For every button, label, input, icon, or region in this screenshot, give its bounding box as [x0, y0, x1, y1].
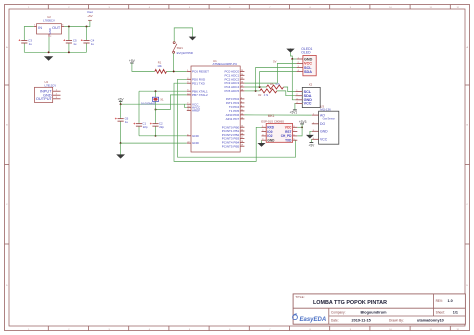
wire C5 to gnd rail	[68, 44, 70, 52]
svg-text:+5V: +5V	[309, 143, 316, 147]
U1 pin 12 AIN0 PD6	[226, 113, 245, 117]
wire SCL to OLED SCL	[256, 68, 297, 91]
U1 pin 7 VCC	[187, 102, 199, 106]
wire U2 GND pin down	[48, 37, 50, 52]
svg-text:Blogoundirum: Blogoundirum	[361, 311, 388, 315]
svg-text:GND: GND	[192, 141, 200, 145]
wire RXD to ESP TXD	[178, 79, 296, 157]
switch SW1 EVQ22705R	[173, 42, 193, 55]
U1 pin 27 PC4 ADC4	[224, 85, 244, 89]
wire AIN0 PD6 to U3 AO	[244, 114, 311, 116]
svg-text:AIN1 PD7: AIN1 PD7	[226, 117, 240, 121]
MK1 pin 1 RXD	[262, 126, 275, 130]
junction	[155, 135, 157, 137]
capacitor C4	[81, 38, 95, 45]
wire SW1 to reset node	[173, 53, 175, 71]
wire R2 to X2 SDA	[277, 91, 296, 96]
U1 pin 25 PC2 ADC2	[224, 77, 244, 81]
wire SDA to OLED SDA	[260, 72, 297, 87]
sensor U3 MQ-136	[319, 105, 339, 145]
U1 pin 19 PCINT5 PB5	[222, 144, 245, 148]
svg-text:+5V1: +5V1	[290, 110, 298, 114]
module MK1 ESP-01S C80865	[261, 114, 292, 142]
svg-text:GND: GND	[267, 138, 275, 142]
power flag +5V (reset pullup)	[129, 59, 136, 63]
svg-text:EVQ22705R: EVQ22705R	[177, 51, 193, 55]
U1 pin 15 PCINT1 PB1	[222, 129, 245, 133]
ground (MK1)	[258, 143, 266, 147]
X2 pin 1 SCL	[295, 90, 311, 94]
MK1 pin 3 IO2	[262, 134, 273, 138]
connector X2	[302, 83, 320, 108]
svg-text:GND: GND	[320, 130, 328, 134]
svg-text:TXD: TXD	[285, 138, 292, 142]
svg-text:GND: GND	[304, 57, 313, 61]
svg-text:ESP-01S C80865: ESP-01S C80865	[261, 120, 284, 124]
wire ground rail to U1 GND 22	[121, 142, 187, 144]
X2 pin 3 GND	[295, 98, 312, 102]
MK1 pin 5 TXD	[285, 138, 297, 142]
svg-text:PB7 XTAL2: PB7 XTAL2	[192, 93, 208, 97]
wire U2 OUT to +5V	[64, 20, 90, 26]
svg-text:LOMBA TTG POPOK PINTAR: LOMBA TTG POPOK PINTAR	[313, 300, 387, 306]
wire to C6	[120, 104, 122, 117]
U1 pin 11 T1 PD5	[229, 109, 245, 113]
power flag Vout +5V	[87, 10, 93, 20]
svg-text:1u: 1u	[91, 42, 95, 46]
svg-text:L7812CV: L7812CV	[45, 83, 57, 87]
power flag +3V3	[299, 120, 307, 124]
svg-text:X2: X2	[309, 83, 313, 87]
OLED1 pin 1 GND	[297, 57, 313, 61]
U3 pin 3 GND	[312, 130, 328, 134]
U1 pin 8 GND	[187, 134, 200, 138]
svg-text:SW1: SW1	[177, 46, 184, 50]
U1 pin 1 PC6 RESET	[187, 70, 209, 74]
U1 pin 13 AIN1 PD7	[226, 117, 245, 121]
wire OLED GND to X2 GND	[292, 59, 295, 100]
svg-text:X1: X1	[160, 97, 164, 101]
U1 pin 24 PC1 ADC1	[224, 73, 244, 77]
junction	[291, 58, 293, 60]
wire PC5 SCL to R2	[244, 90, 259, 92]
svg-text:2019-11-15: 2019-11-15	[352, 319, 371, 323]
wire to C5	[68, 27, 70, 40]
wire C6 to ground rail	[120, 123, 122, 144]
svg-text:GND: GND	[48, 28, 52, 34]
U3 pin 2 DO	[312, 122, 326, 126]
U1 pin 20 AVCC	[187, 105, 201, 109]
OLED1 pin 4 SDA	[297, 70, 313, 74]
svg-text:PD1 TXD: PD1 TXD	[192, 81, 206, 85]
U1 pin 2 PD0 RXD	[187, 77, 206, 81]
X2 pin 2 SDA	[295, 94, 311, 98]
wire U3 VCC to +5V	[310, 139, 312, 142]
wire +3V3 stem	[301, 124, 303, 127]
U3 pin 4 VCC	[312, 138, 328, 142]
svg-text:AREF: AREF	[192, 109, 200, 113]
resistor R1 10k	[155, 61, 167, 74]
svg-text:1.0: 1.0	[448, 299, 453, 303]
svg-text:PCINT5 PB5: PCINT5 PB5	[222, 144, 240, 148]
junction	[259, 86, 261, 88]
junction	[120, 142, 122, 144]
U1 pin 9 PB6 XTAL1	[187, 89, 208, 93]
U1 pin 6 T0 PD4	[229, 105, 245, 109]
U1 pin 14 PCINT0 PB0	[222, 125, 245, 129]
capacitor C5	[63, 38, 77, 45]
svg-text:DO: DO	[320, 122, 325, 126]
wire R1 to PC6 RESET	[167, 70, 187, 72]
svg-text:Sheet:: Sheet:	[436, 311, 445, 315]
svg-text:1u: 1u	[29, 42, 33, 46]
junction reset node	[173, 70, 175, 72]
svg-text:SDA: SDA	[304, 70, 312, 74]
junction	[155, 109, 157, 111]
wire to ground symbol	[120, 143, 122, 154]
crystal X1 16.000MHZ	[141, 91, 164, 106]
wire TXD to ESP RXD	[174, 83, 262, 161]
svg-text:VCC: VCC	[320, 138, 328, 142]
wire MK1 VCC to +3V3	[297, 126, 302, 128]
ground	[116, 154, 125, 158]
junction	[255, 90, 257, 92]
svg-text:MK1: MK1	[268, 114, 275, 118]
power flag +5V1	[290, 110, 298, 114]
U1 pin 18 PCINT4 PB4	[222, 141, 245, 145]
EasyEDA logo	[293, 314, 327, 323]
U1 pin 17 PCINT3 PB3	[222, 137, 245, 141]
wire +5V to VCC	[121, 101, 187, 104]
svg-text:R1: R1	[158, 61, 162, 65]
wire U3 GND to ground	[310, 131, 312, 135]
wire PC3 to OLED VCC	[244, 63, 296, 83]
svg-text:16.000MHZ: 16.000MHZ	[141, 102, 156, 106]
power flag +5V (MCU VCC)	[118, 97, 125, 101]
wire C1 to ground rail	[138, 128, 140, 136]
svg-text:+5V: +5V	[87, 14, 92, 18]
ground	[44, 56, 53, 61]
ground (OLED)	[286, 48, 294, 52]
wire ground rail to U1 GND 8	[139, 135, 187, 137]
svg-text:Drawn By:: Drawn By:	[389, 319, 404, 323]
microcontroller U1 ATMEGA328P-PU	[191, 59, 240, 152]
wire X2 VCC to +5V1	[294, 103, 297, 110]
junction	[120, 103, 122, 105]
wire PC4 SDA to R3	[244, 86, 266, 88]
wire C2 to ground rail	[155, 128, 157, 136]
wire +3V3 to CH_PD	[297, 127, 302, 136]
U1 pin 23 PC0 ADC0	[224, 70, 244, 74]
svg-text:OUT: OUT	[52, 26, 61, 30]
svg-text:10k: 10k	[157, 64, 162, 68]
wire crystal to C2	[155, 101, 157, 122]
U1 pin 21 AREF	[187, 109, 200, 113]
wire ground to OLED GND	[291, 52, 297, 59]
U3 pin 1 AO	[312, 113, 325, 117]
X2 pin 4 VCC	[295, 102, 311, 106]
resistor R2 4.7k	[258, 89, 277, 97]
U1 pin 22 GND	[187, 141, 200, 145]
ground	[189, 36, 197, 40]
MK1 pin 2 IO0	[262, 130, 273, 134]
wire XTAL1	[139, 90, 187, 92]
MK1 pin 7 RST	[285, 130, 297, 134]
svg-text:PC5 ADC5: PC5 ADC5	[224, 89, 239, 93]
wire VCC to AVCC	[184, 104, 186, 107]
wire SW1 to ground	[174, 28, 192, 42]
svg-text:+5V: +5V	[118, 97, 125, 101]
MK1 pin 6 CH_PD	[281, 134, 298, 138]
svg-text:22p: 22p	[159, 125, 164, 129]
svg-text:+3V3: +3V3	[299, 120, 307, 124]
svg-text:REV:: REV:	[436, 299, 443, 303]
capacitor C6	[115, 117, 129, 124]
svg-text:OUTPUT: OUTPUT	[36, 96, 53, 101]
wire +5V to R1	[132, 63, 155, 71]
connector OLED1 OLED	[301, 47, 316, 76]
svg-text:IN: IN	[38, 26, 42, 30]
svg-text:GND: GND	[192, 134, 200, 138]
wire MK1 GND down	[261, 140, 263, 143]
U1 pin 26 PC3 ADC3	[224, 81, 244, 85]
junction	[86, 26, 88, 28]
U1 pin 4 INT0 PD2	[226, 97, 245, 101]
junction	[68, 51, 70, 53]
capacitor C2	[150, 122, 165, 129]
svg-text:VCC: VCC	[304, 102, 312, 106]
svg-text:Date:: Date:	[331, 319, 339, 323]
svg-text:ATMEGA328P-PU: ATMEGA328P-PU	[213, 62, 238, 66]
resistor R3 4.7k	[267, 84, 284, 89]
wire XTAL1 to C1	[138, 91, 140, 122]
U1 pin 28 PC5 ADC5	[224, 89, 244, 93]
svg-text:5V: 5V	[273, 60, 276, 64]
svg-text:1u: 1u	[73, 42, 77, 46]
svg-text:EasyEDA: EasyEDA	[300, 317, 327, 323]
svg-text:1/1: 1/1	[453, 311, 458, 315]
capacitor C1	[133, 122, 148, 129]
MK1 pin 8 VCC	[285, 126, 298, 130]
svg-text:PC6 RESET: PC6 RESET	[192, 70, 209, 74]
svg-text:L7805CV: L7805CV	[43, 19, 55, 23]
svg-text:TITLE:: TITLE:	[295, 295, 304, 299]
svg-text:1u: 1u	[125, 120, 129, 124]
OLED1 pin 3 SCL	[297, 66, 313, 70]
junction	[301, 126, 303, 128]
ground (U3)	[306, 135, 314, 139]
U1 pin 5 INT1 PD3	[226, 101, 245, 105]
junction	[48, 51, 50, 53]
svg-text:OLED: OLED	[301, 51, 311, 55]
MK1 pin 4 GND	[262, 138, 276, 142]
U1 pin 3 PD1 TXD	[187, 81, 206, 85]
wire XTAL2	[156, 95, 187, 110]
regulator U2 L7805CV	[34, 15, 65, 38]
wire C3 to gnd rail	[23, 44, 25, 52]
svg-text:22p: 22p	[143, 125, 148, 129]
svg-text:MQ-136: MQ-136	[320, 108, 331, 112]
OLED1 pin 2 VCC	[297, 62, 313, 66]
wire R3 to X2 SCL	[284, 87, 296, 92]
junction	[155, 90, 157, 92]
wire ground rail	[24, 51, 86, 53]
wire U2 IN to C3	[24, 27, 33, 40]
power flag +5V (U3)	[309, 143, 316, 148]
svg-text:utamadonny10: utamadonny10	[417, 319, 444, 323]
wire C4 to gnd rail	[86, 44, 88, 52]
svg-text:+5V: +5V	[129, 59, 136, 63]
junction	[68, 26, 70, 28]
U1 pin 16 PCINT2 PB2	[222, 133, 245, 137]
U1 pin 10 PB7 XTAL2	[187, 93, 208, 97]
svg-text:Gas Sensor: Gas Sensor	[323, 118, 335, 121]
regulator U4 L7812CV	[35, 80, 61, 103]
title block	[293, 294, 465, 324]
svg-text:Company:: Company:	[331, 311, 346, 315]
svg-text:AO: AO	[320, 113, 325, 117]
wire to C4	[86, 27, 88, 40]
capacitor C3	[19, 38, 33, 45]
